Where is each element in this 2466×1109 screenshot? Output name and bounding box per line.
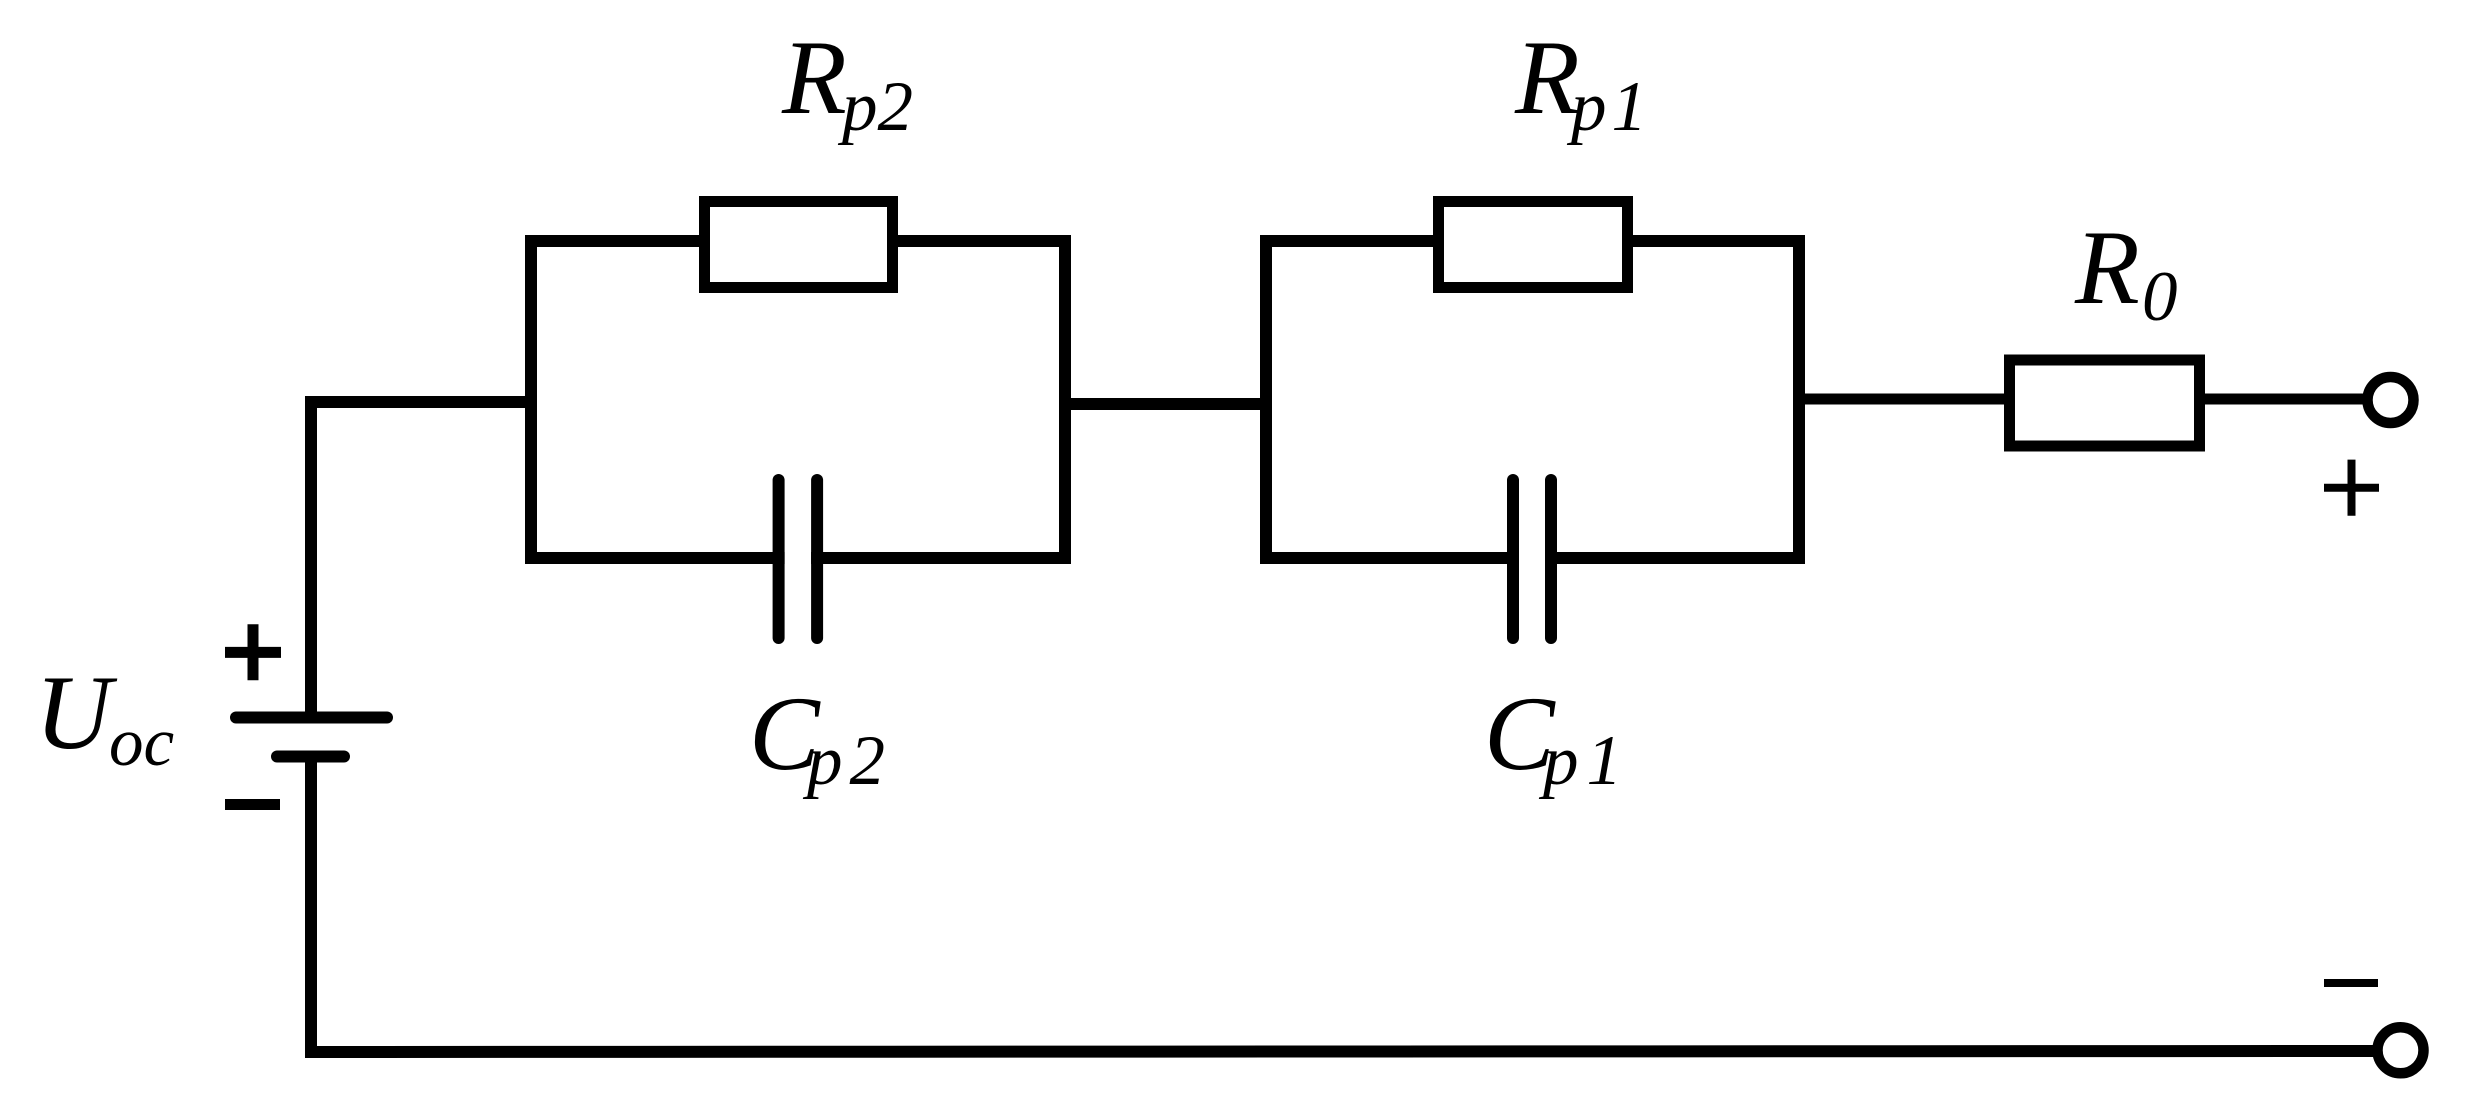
- svg-text:0: 0: [2142, 258, 2178, 336]
- svg-text:R: R: [2074, 209, 2140, 326]
- node: minus sign at negative terminal: [2324, 979, 2378, 987]
- battery Uoc negative plate (short): [277, 751, 344, 763]
- wire: white gap in loop bottom for capacitor Cp1: [1519, 544, 1545, 572]
- capacitor Cp1 plate right: [1545, 480, 1557, 638]
- wire: R0 to positive terminal: [2199, 394, 2370, 405]
- svg-text:R: R: [1514, 19, 1580, 136]
- node: negative output terminal: [2378, 1027, 2424, 1073]
- resistor Rp2: [705, 202, 893, 288]
- wire: left horizontal from battery to first RC loop: [305, 396, 537, 408]
- svg-text:p2: p2: [837, 68, 913, 146]
- capacitor Cp2 plate left: [773, 480, 785, 638]
- svg-text:R: R: [781, 19, 847, 136]
- wire: between the two RC loops: [1059, 398, 1272, 410]
- wire: battery positive lead vertical: [305, 396, 317, 714]
- wire: battery negative lead vertical: [305, 760, 317, 1058]
- svg-text:p1: p1: [1566, 68, 1652, 146]
- node B: right RC loop outline: [1266, 241, 1799, 558]
- node: positive output terminal: [2368, 377, 2414, 423]
- battery Uoc positive plate (long): [236, 712, 387, 724]
- wire: bottom return wire: [305, 1051, 2377, 1052]
- node A: left RC loop outline: [531, 241, 1065, 558]
- svg-text:oc: oc: [109, 704, 174, 780]
- resistor Rp1: [1439, 202, 1628, 288]
- node: plus sign at positive terminal: [2324, 484, 2379, 492]
- svg-text:p2: p2: [802, 722, 892, 800]
- capacitor Cp1 plate left: [1507, 480, 1519, 638]
- resistor R0: [2010, 360, 2200, 446]
- capacitor Cp2 plate right: [811, 480, 823, 638]
- wire: right loop to R0: [1793, 394, 2010, 405]
- battery plus sign: [225, 647, 281, 658]
- battery minus sign: [225, 799, 280, 810]
- svg-text:p1: p1: [1538, 722, 1630, 800]
- svg-text:U: U: [35, 654, 118, 771]
- wire: white gap in loop bottom for capacitor Cp2: [785, 544, 812, 572]
